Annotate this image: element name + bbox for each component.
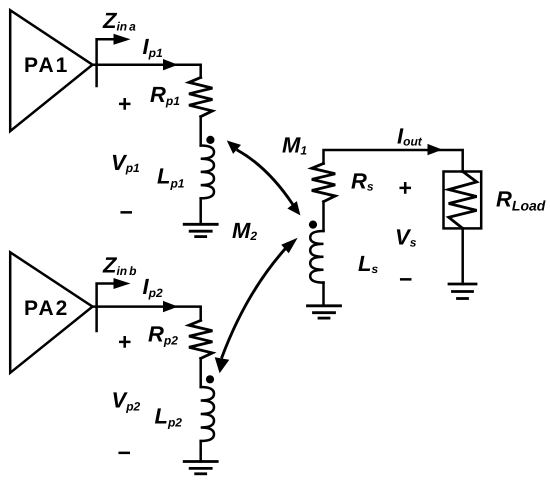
svg-text:PA2: PA2 — [24, 297, 69, 320]
wire Ls to ground — [322, 283, 325, 306]
svg-text:+: + — [118, 91, 131, 117]
arrowhead Zina — [114, 34, 131, 45]
mutual coupling arrow M2 curve — [222, 249, 285, 357]
mutual coupling arrow M1 curve — [238, 151, 293, 205]
wire secondary top to Rs — [324, 150, 463, 172]
wire Zina stub — [97, 39, 115, 86]
wire Zinb stub — [97, 284, 115, 332]
wire PA1 output to Rp1 — [93, 65, 201, 78]
svg-text:−: − — [399, 266, 412, 292]
svg-text:+: + — [118, 329, 131, 355]
svg-text:+: + — [399, 175, 412, 201]
node dot Ls — [309, 221, 317, 229]
op-amp PA1 — [10, 10, 92, 131]
svg-text:−: − — [118, 440, 131, 466]
ground below Lp1 — [184, 224, 217, 236]
load box RLoad — [444, 172, 482, 229]
wire Lp1 to ground — [199, 198, 202, 224]
resistor inside RLoad — [449, 172, 477, 229]
wire PA2 output to Rp2 — [93, 307, 201, 321]
wire RLoad to ground — [461, 228, 464, 284]
arrowhead M1 upper — [227, 141, 241, 154]
wire Rp1 to Lp1 — [199, 117, 202, 146]
resistor Rs — [312, 164, 335, 202]
arrowhead M1 lower — [287, 201, 300, 215]
arrowhead Ip1 — [163, 59, 178, 70]
inductor Ls — [310, 231, 323, 283]
arrowhead Ip2 — [163, 301, 178, 312]
svg-text:−: − — [120, 199, 133, 225]
node dot Lp2 — [206, 375, 214, 383]
resistor Rp1 — [189, 78, 212, 117]
arrowhead Iout — [428, 144, 443, 155]
svg-text:PA1: PA1 — [24, 54, 69, 77]
resistor Rp2 — [189, 320, 212, 358]
inductor Lp1 — [201, 146, 214, 199]
node dot Lp1 — [206, 136, 214, 144]
inductor Lp2 — [201, 387, 214, 441]
wire Lp2 to ground — [199, 441, 202, 462]
wire Rp2 to Lp2 — [199, 358, 202, 387]
wire Rs to Ls — [322, 202, 325, 231]
arrowhead M2 lower — [215, 357, 230, 373]
ground below Lp2 — [184, 462, 217, 474]
op-amp PA2 — [10, 252, 92, 372]
arrowhead M2 upper — [281, 238, 297, 254]
arrowhead Zinb — [114, 278, 131, 289]
ground below RLoad — [449, 284, 476, 299]
ground below Ls — [308, 306, 341, 318]
